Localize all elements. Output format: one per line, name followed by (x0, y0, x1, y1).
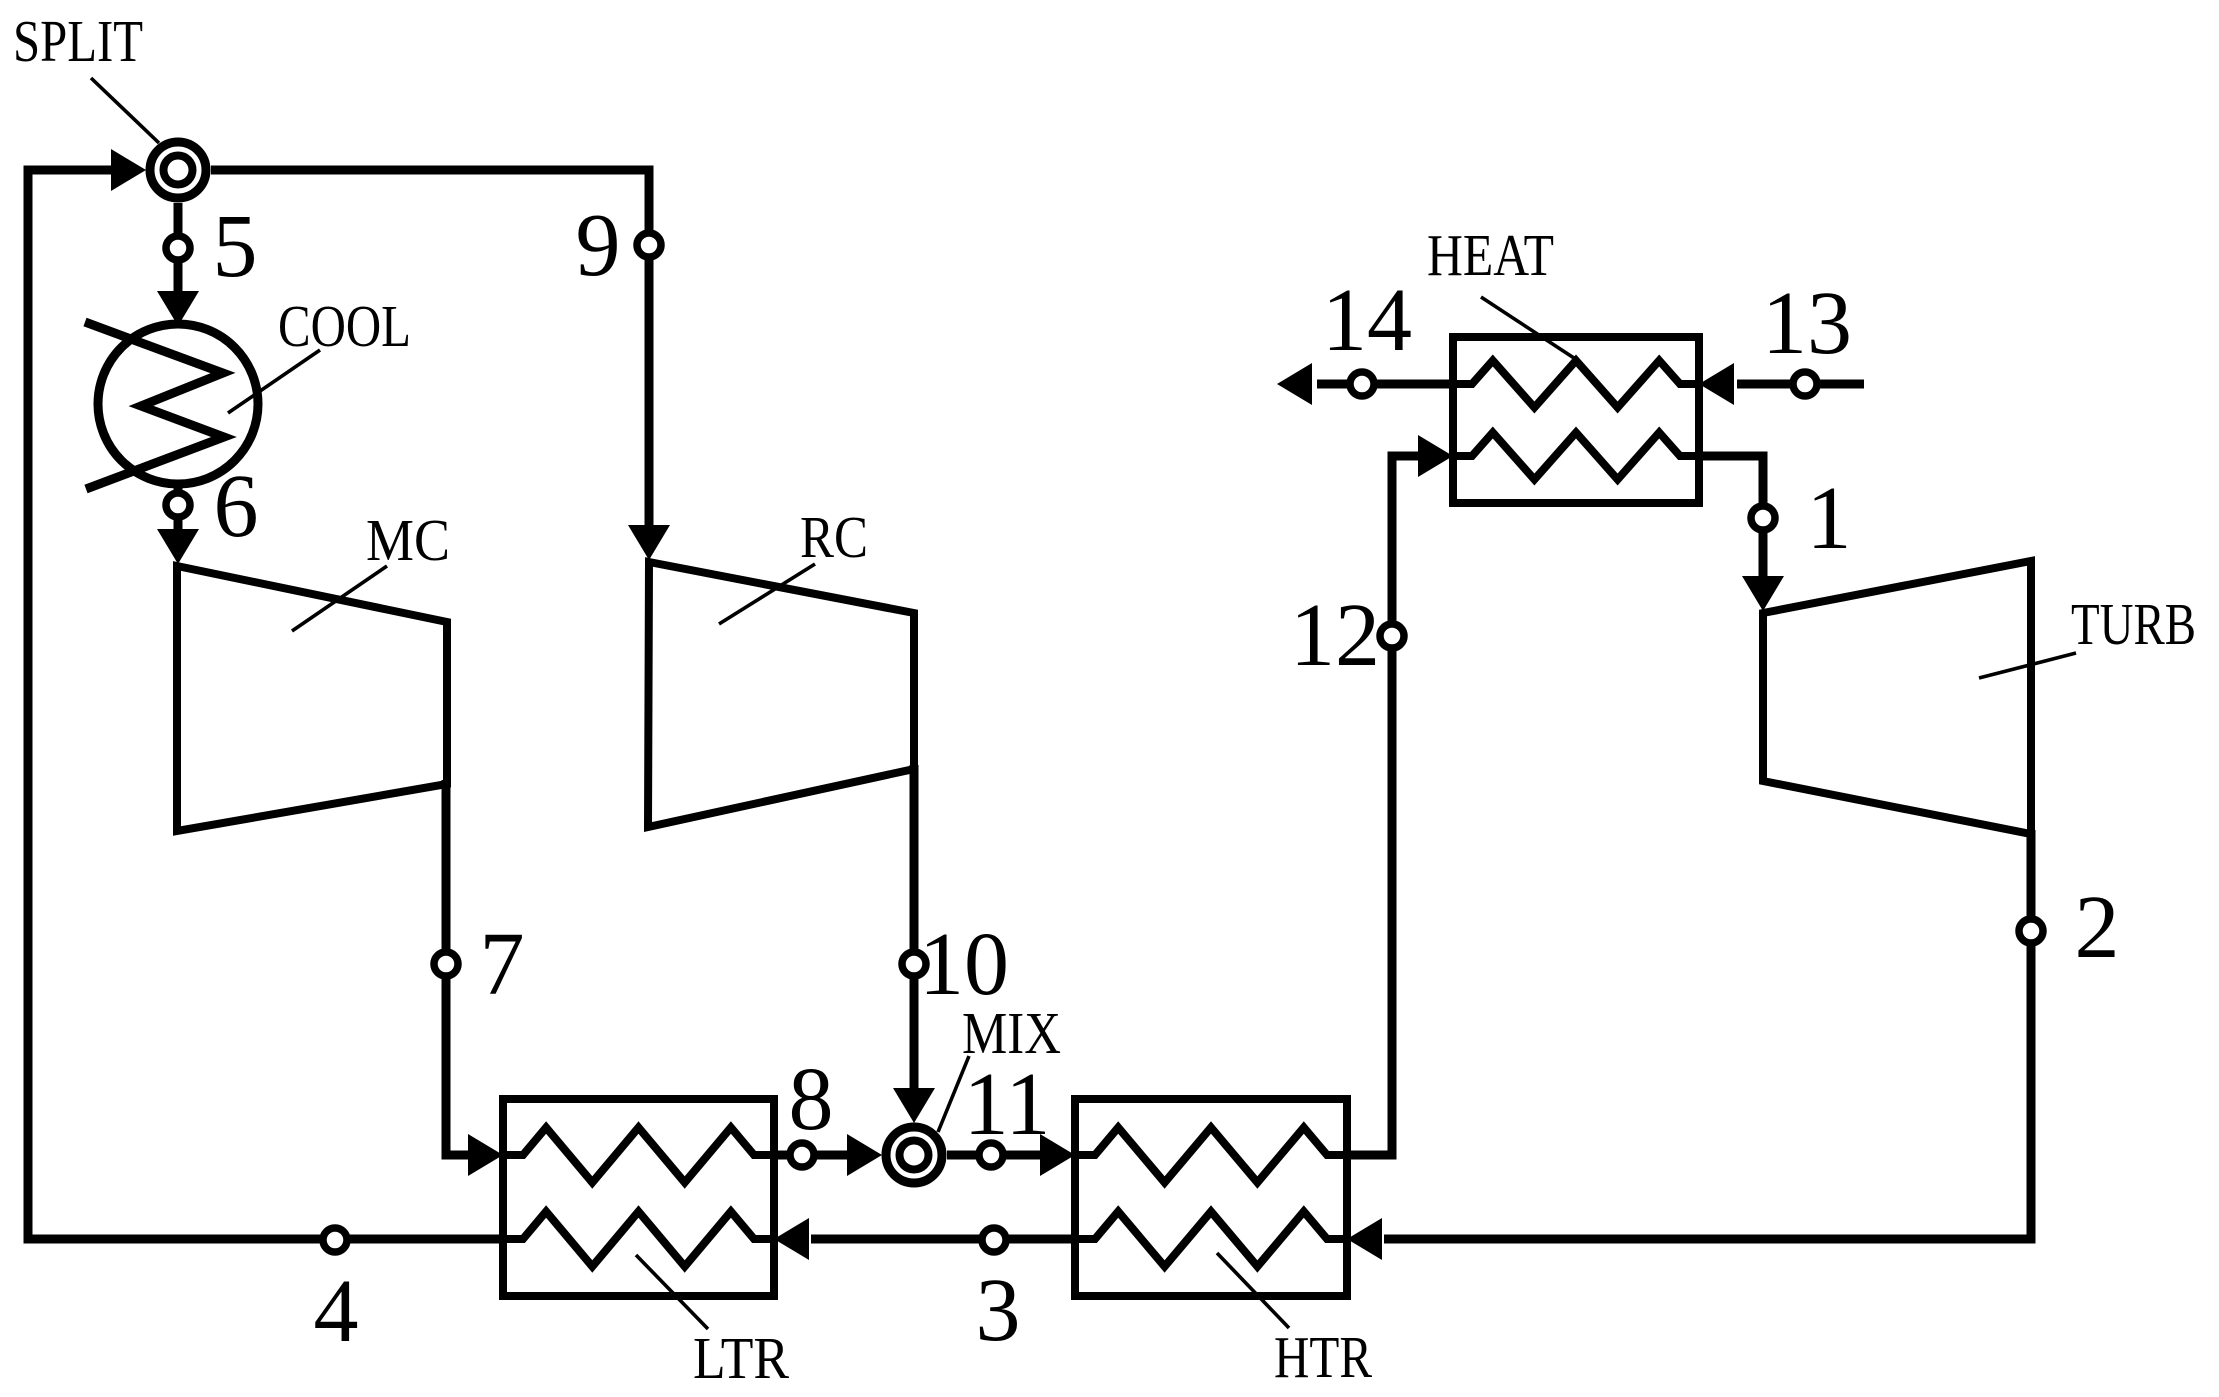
node 3 (stream point circle) (982, 1228, 1006, 1252)
svg-text:MC: MC (366, 507, 450, 573)
svg-text:5: 5 (213, 197, 258, 296)
arrow into TURB inlet (1742, 576, 1784, 611)
arrow heat source into HEAT hot side (1699, 363, 1734, 405)
wire: TURB outlet down and left to HTR hot inlet (1384, 830, 2031, 1239)
wire: LTR hot outlet left, bottom return line and left riser to SPLIT (28, 170, 503, 1239)
pointer line HTR (1217, 1253, 1289, 1328)
recuperator LTR (box) (503, 1099, 774, 1296)
node 2 (stream point circle) (2019, 919, 2043, 943)
wire: LTR cold outlet to MIX (774, 1151, 849, 1160)
svg-text:2: 2 (2075, 878, 2120, 977)
HEAT cold-side zigzag (1453, 433, 1699, 480)
splitter SPLIT (double circle) (150, 142, 206, 198)
pointer line SPLIT (91, 78, 159, 143)
mixer MIX (double circle) (886, 1127, 942, 1183)
svg-text:COOL: COOL (278, 293, 411, 359)
pointer line TURB (1979, 653, 2076, 678)
node 7 (stream point circle) (434, 952, 458, 976)
pointer line HEAT (1481, 297, 1577, 360)
wire: SPLIT to RC inlet (top line and drop at x=649) (211, 170, 649, 528)
wire: HTR hot outlet left to LTR hot inlet (811, 1235, 1075, 1244)
node 12 (stream point circle) (1380, 624, 1404, 648)
wire: HEAT cold outlet right and down to TURB inlet (1699, 456, 1763, 578)
svg-text:HTR: HTR (1274, 1324, 1373, 1390)
compressor MC (trapezoid) (177, 566, 447, 831)
pointer line MIX (938, 1056, 969, 1132)
svg-text:7: 7 (480, 915, 525, 1014)
svg-text:HEAT: HEAT (1427, 222, 1554, 288)
LTR cold-side zigzag (503, 1128, 774, 1183)
arrow RC outlet into MIX (893, 1088, 935, 1123)
svg-text:8: 8 (789, 1050, 834, 1149)
wire: COOL down to MC (174, 484, 183, 531)
turbine TURB (trapezoid) (1763, 561, 2031, 834)
node 11 (stream point circle) (979, 1143, 1003, 1167)
node 5 (stream point circle) (166, 236, 190, 260)
pointer line COOL (228, 350, 320, 413)
svg-text:SPLIT: SPLIT (13, 8, 143, 74)
cooler COOL (circle) (98, 324, 258, 484)
node 10 (stream point circle) (902, 952, 926, 976)
node 13 (stream point circle) (1793, 372, 1817, 396)
HTR hot-side zigzag (1075, 1212, 1347, 1267)
arrow SPLIT to COOL (157, 291, 199, 326)
heater HEAT (box) (1453, 337, 1699, 503)
pointer line LTR (636, 1255, 708, 1329)
node 6 (stream point circle) (166, 493, 190, 517)
svg-text:10: 10 (919, 915, 1009, 1014)
svg-text:3: 3 (976, 1261, 1021, 1360)
compressor RC (trapezoid) (648, 562, 914, 827)
wire: heat source inlet line (stream 13) (1737, 380, 1864, 389)
LTR hot-side zigzag (503, 1212, 774, 1267)
HTR cold-side zigzag (1075, 1128, 1347, 1183)
svg-text:1: 1 (1807, 469, 1852, 568)
svg-text:RC: RC (800, 504, 868, 570)
svg-text:9: 9 (576, 196, 621, 295)
node 9 (stream point circle) (637, 233, 661, 257)
wire: RC outlet down to MIX (910, 765, 919, 1090)
node 8 (stream point circle) (790, 1143, 814, 1167)
arrow MC outlet into LTR cold side (468, 1134, 503, 1176)
arrow into SPLIT (111, 149, 146, 191)
pointer line MC (292, 566, 387, 631)
wire: SPLIT down to COOL (174, 203, 183, 292)
arrow heat sink outlet (stream 14) (1277, 363, 1312, 405)
pointer line RC (719, 564, 815, 624)
recuperator HTR (box) (1075, 1099, 1347, 1296)
node 1 (stream point circle) (1751, 506, 1775, 530)
cooler COOL zigzag (85, 322, 224, 489)
arrow MIX outlet into HTR cold side (1040, 1134, 1075, 1176)
svg-text:TURB: TURB (2071, 591, 2196, 657)
svg-text:4: 4 (314, 1262, 359, 1361)
arrow HTR hot outlet into LTR hot side (774, 1218, 809, 1260)
arrow into RC inlet (628, 525, 670, 560)
wire: HTR cold outlet up and right to HEAT cold inlet (1347, 456, 1420, 1155)
arrow LTR cold outlet into MIX (847, 1134, 882, 1176)
arrow COOL to MC inlet (157, 529, 199, 564)
node 14 (stream point circle) (1350, 372, 1374, 396)
HEAT hot-side zigzag (1453, 361, 1699, 408)
arrow TURB outlet into HTR hot side (1347, 1218, 1382, 1260)
wire: HEAT hot outlet left (stream 14) (1317, 380, 1453, 389)
svg-text:12: 12 (1290, 586, 1380, 685)
wire: MC outlet down and right to LTR cold inlet (446, 780, 470, 1155)
svg-text:11: 11 (964, 1055, 1051, 1154)
svg-text:13: 13 (1762, 274, 1852, 373)
svg-text:LTR: LTR (693, 1325, 790, 1391)
svg-text:14: 14 (1322, 271, 1412, 370)
svg-text:6: 6 (214, 457, 259, 556)
node 4 (stream point circle) (323, 1228, 347, 1252)
wire: MIX outlet to HTR cold inlet (947, 1151, 1042, 1160)
arrow into HEAT cold side (1418, 435, 1453, 477)
